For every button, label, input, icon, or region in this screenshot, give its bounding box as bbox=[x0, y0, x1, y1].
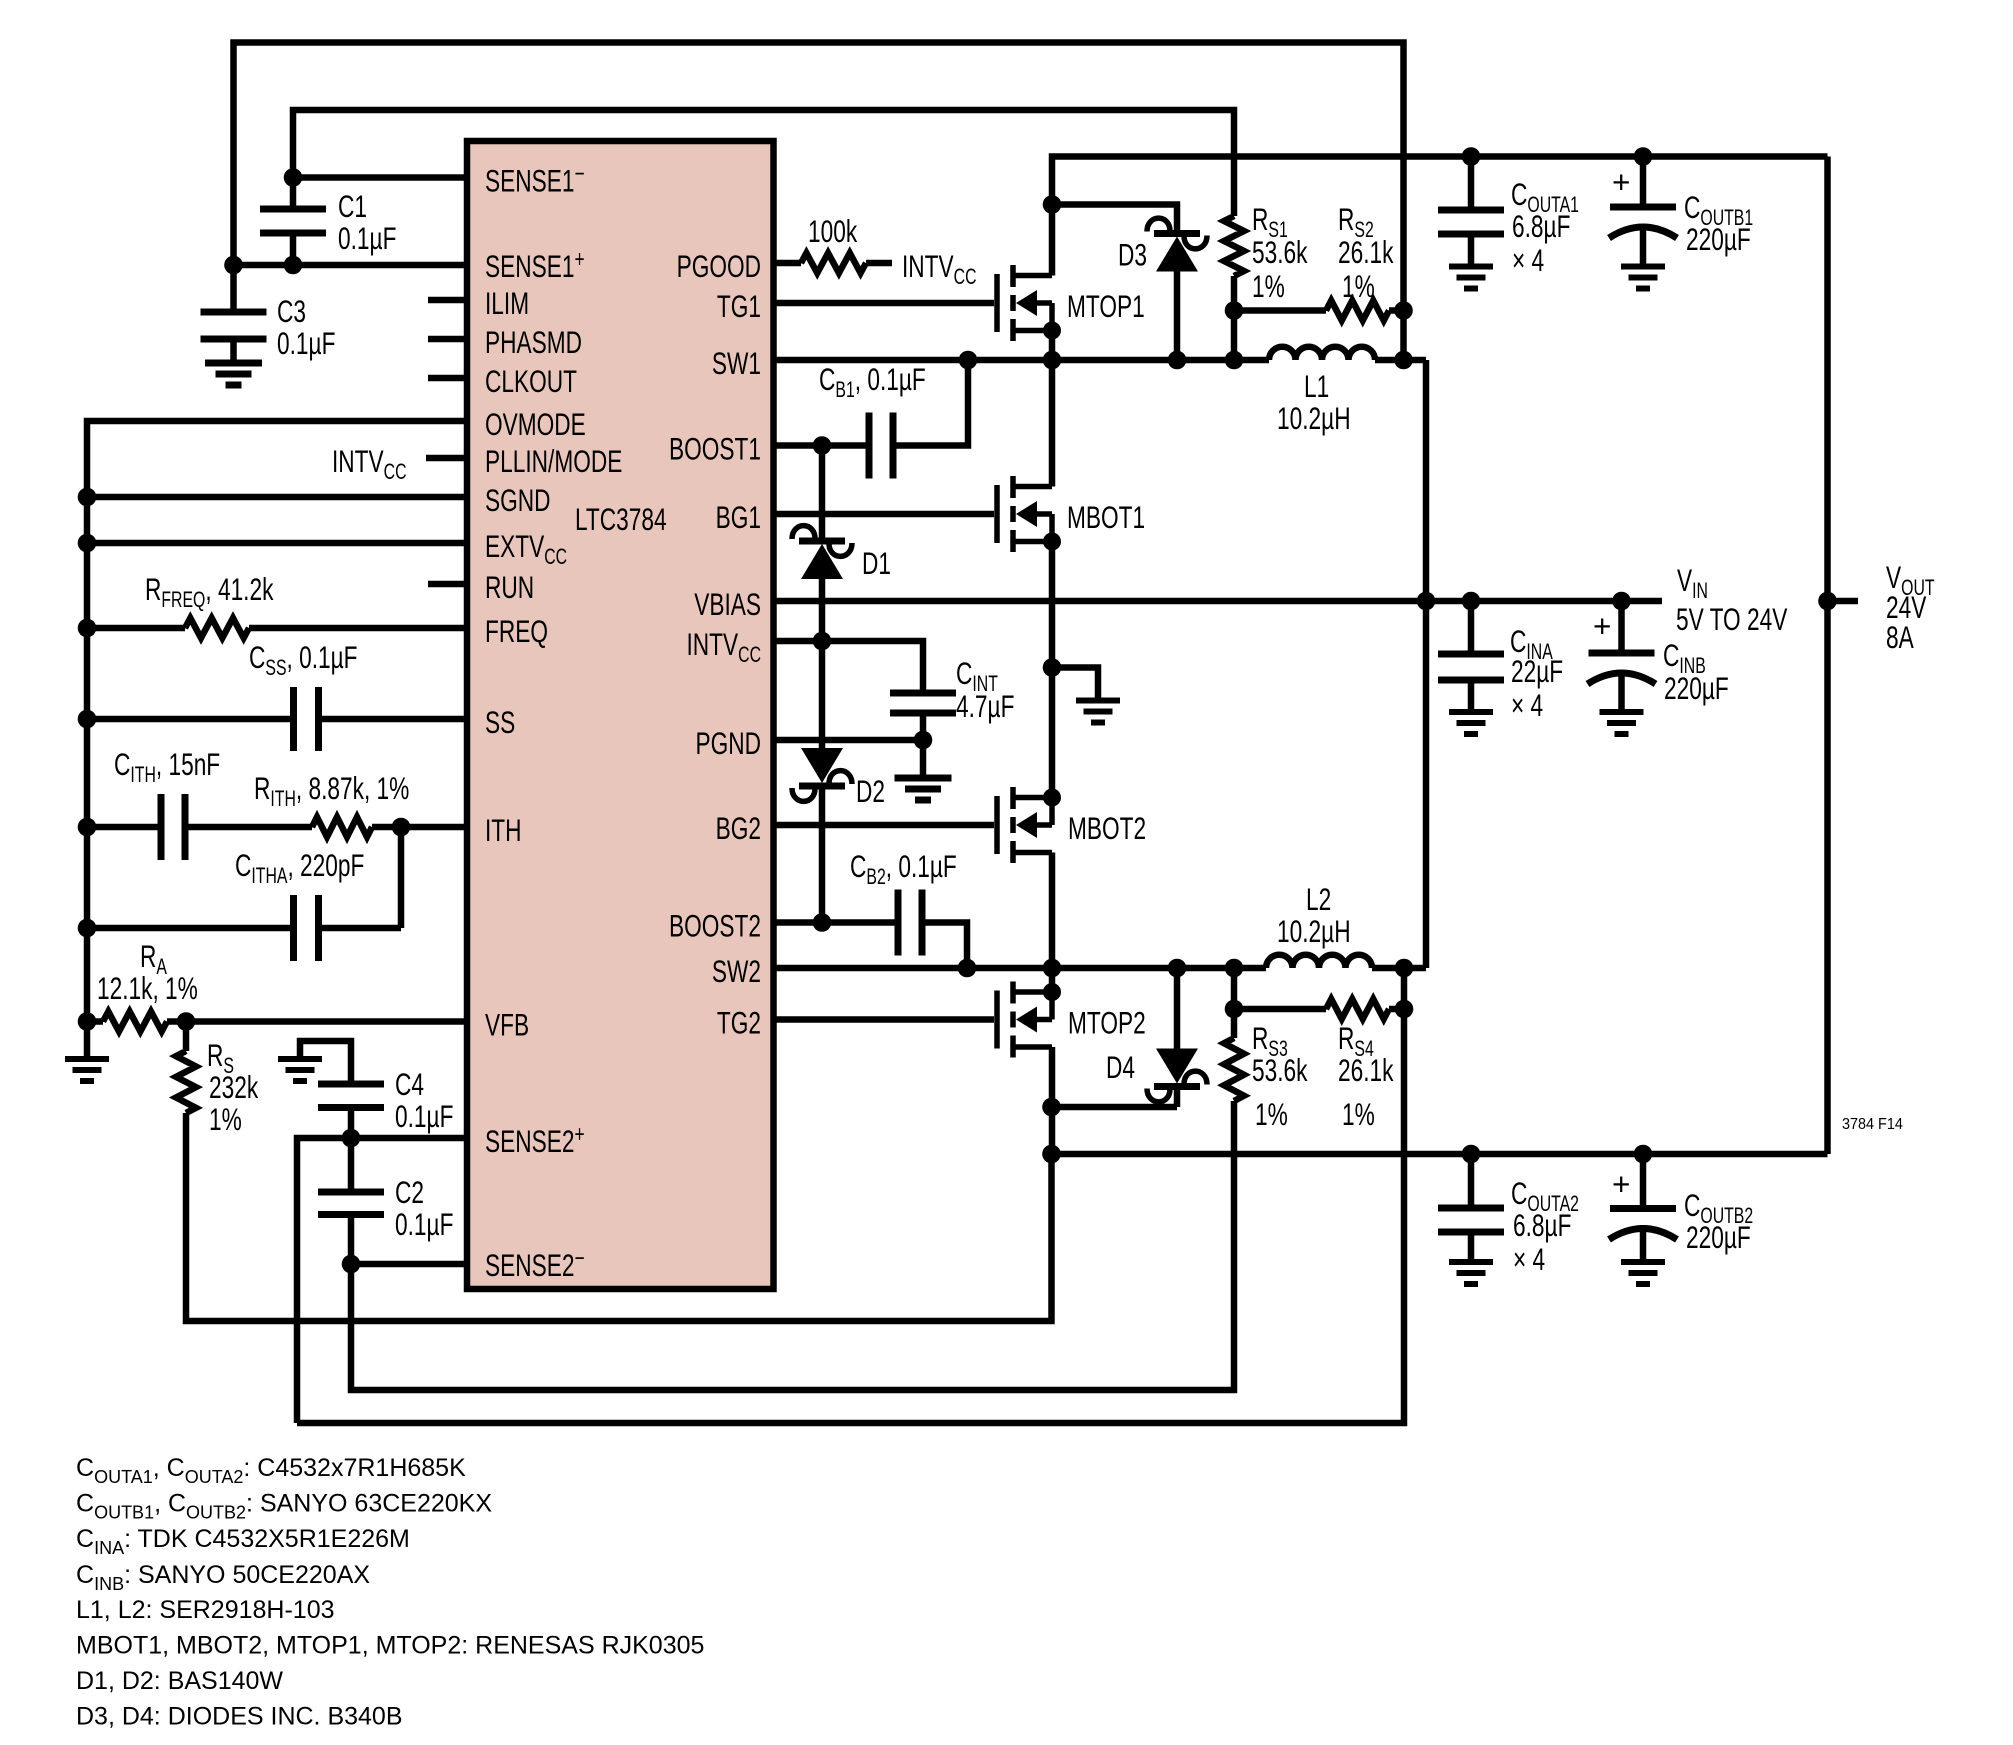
svg-text:C2: C2 bbox=[395, 1174, 424, 1210]
svg-text:MBOT1: MBOT1 bbox=[1067, 499, 1145, 535]
svg-text:BOOST1: BOOST1 bbox=[669, 431, 761, 467]
svg-text:TG2: TG2 bbox=[717, 1005, 761, 1041]
svg-text:BOOST2: BOOST2 bbox=[669, 908, 761, 944]
svg-text:PGOOD: PGOOD bbox=[677, 248, 761, 284]
svg-text:TG1: TG1 bbox=[717, 288, 761, 324]
svg-text:× 4: × 4 bbox=[1511, 687, 1543, 723]
svg-text:SENSE1−: SENSE1− bbox=[485, 161, 585, 199]
svg-text:SW2: SW2 bbox=[712, 953, 761, 989]
svg-text:C1: C1 bbox=[338, 188, 367, 224]
svg-text:0.1µF: 0.1µF bbox=[395, 1098, 453, 1134]
svg-text:L1, L2: SER2918H-103: L1, L2: SER2918H-103 bbox=[76, 1596, 335, 1624]
svg-text:RUN: RUN bbox=[485, 569, 534, 605]
svg-text:SGND: SGND bbox=[485, 482, 551, 518]
svg-text:232k: 232k bbox=[209, 1069, 258, 1105]
svg-text:D3, D4: DIODES INC. B340B: D3, D4: DIODES INC. B340B bbox=[76, 1703, 403, 1731]
svg-text:10.2µH: 10.2µH bbox=[1277, 913, 1351, 949]
svg-text:L1: L1 bbox=[1304, 368, 1329, 404]
svg-text:SENSE1+: SENSE1+ bbox=[485, 246, 585, 284]
svg-text:SS: SS bbox=[485, 704, 515, 740]
svg-text:26.1k: 26.1k bbox=[1338, 234, 1394, 270]
svg-text:8A: 8A bbox=[1886, 619, 1914, 655]
svg-text:CB1, 0.1µF: CB1, 0.1µF bbox=[819, 361, 926, 402]
svg-text:BG1: BG1 bbox=[716, 499, 761, 535]
svg-text:220µF: 220µF bbox=[1686, 1219, 1751, 1255]
svg-text:C4: C4 bbox=[395, 1066, 424, 1102]
svg-text:SENSE2−: SENSE2− bbox=[485, 1245, 585, 1283]
svg-text:BG2: BG2 bbox=[716, 810, 761, 846]
svg-text:D4: D4 bbox=[1106, 1049, 1135, 1085]
svg-text:SW1: SW1 bbox=[712, 345, 761, 381]
svg-text:12.1k, 1%: 12.1k, 1% bbox=[97, 970, 198, 1006]
svg-text:VFB: VFB bbox=[485, 1007, 529, 1043]
svg-text:1%: 1% bbox=[1252, 268, 1285, 304]
svg-text:0.1µF: 0.1µF bbox=[338, 220, 396, 256]
svg-text:D3: D3 bbox=[1118, 237, 1147, 273]
svg-text:PGND: PGND bbox=[695, 725, 761, 761]
svg-text:OVMODE: OVMODE bbox=[485, 406, 586, 442]
svg-text:+: + bbox=[1593, 608, 1611, 644]
svg-text:53.6k: 53.6k bbox=[1252, 234, 1308, 270]
svg-text:VBIAS: VBIAS bbox=[694, 586, 761, 622]
svg-text:C3: C3 bbox=[277, 293, 306, 329]
svg-text:0.1µF: 0.1µF bbox=[395, 1206, 453, 1242]
svg-text:1%: 1% bbox=[209, 1101, 242, 1137]
svg-text:D2: D2 bbox=[856, 773, 885, 809]
svg-text:MBOT1, MBOT2, MTOP1, MTOP2: RE: MBOT1, MBOT2, MTOP1, MTOP2: RENESAS RJK0… bbox=[76, 1632, 704, 1660]
svg-text:220µF: 220µF bbox=[1664, 670, 1729, 706]
svg-text:PHASMD: PHASMD bbox=[485, 324, 582, 360]
svg-text:ITH: ITH bbox=[485, 812, 522, 848]
svg-text:26.1k: 26.1k bbox=[1338, 1052, 1394, 1088]
svg-text:SENSE2+: SENSE2+ bbox=[485, 1121, 585, 1159]
svg-text:6.8µF: 6.8µF bbox=[1513, 1207, 1571, 1243]
svg-text:× 4: × 4 bbox=[1512, 242, 1544, 278]
svg-text:LTC3784: LTC3784 bbox=[575, 501, 667, 537]
svg-text:PLLIN/MODE: PLLIN/MODE bbox=[485, 443, 622, 479]
svg-text:FREQ: FREQ bbox=[485, 613, 548, 649]
svg-text:ILIM: ILIM bbox=[485, 285, 529, 321]
svg-text:+: + bbox=[1612, 1166, 1630, 1202]
svg-text:4.7µF: 4.7µF bbox=[956, 688, 1014, 724]
svg-text:CB2, 0.1µF: CB2, 0.1µF bbox=[850, 848, 957, 889]
svg-text:CLKOUT: CLKOUT bbox=[485, 363, 577, 399]
svg-text:MBOT2: MBOT2 bbox=[1068, 810, 1146, 846]
svg-text:D1: D1 bbox=[862, 545, 891, 581]
svg-text:3784 F14: 3784 F14 bbox=[1842, 1115, 1903, 1133]
svg-text:CITH, 15nF: CITH, 15nF bbox=[114, 746, 220, 787]
svg-text:MTOP1: MTOP1 bbox=[1067, 288, 1145, 324]
svg-text:6.8µF: 6.8µF bbox=[1512, 208, 1570, 244]
svg-text:22µF: 22µF bbox=[1511, 653, 1563, 689]
svg-text:100k: 100k bbox=[808, 213, 857, 249]
svg-text:1%: 1% bbox=[1342, 1096, 1375, 1132]
svg-text:53.6k: 53.6k bbox=[1252, 1052, 1308, 1088]
svg-text:× 4: × 4 bbox=[1513, 1241, 1545, 1277]
svg-text:L2: L2 bbox=[1306, 881, 1331, 917]
svg-text:1%: 1% bbox=[1342, 268, 1375, 304]
svg-text:5V TO 24V: 5V TO 24V bbox=[1676, 601, 1788, 637]
svg-text:D1, D2: BAS140W: D1, D2: BAS140W bbox=[76, 1667, 283, 1695]
svg-text:1%: 1% bbox=[1255, 1096, 1288, 1132]
svg-text:CSS, 0.1µF: CSS, 0.1µF bbox=[249, 639, 358, 680]
svg-text:+: + bbox=[1612, 164, 1630, 200]
svg-text:0.1µF: 0.1µF bbox=[277, 325, 335, 361]
svg-text:10.2µH: 10.2µH bbox=[1277, 400, 1351, 436]
svg-text:220µF: 220µF bbox=[1686, 221, 1751, 257]
svg-text:MTOP2: MTOP2 bbox=[1068, 1005, 1146, 1041]
